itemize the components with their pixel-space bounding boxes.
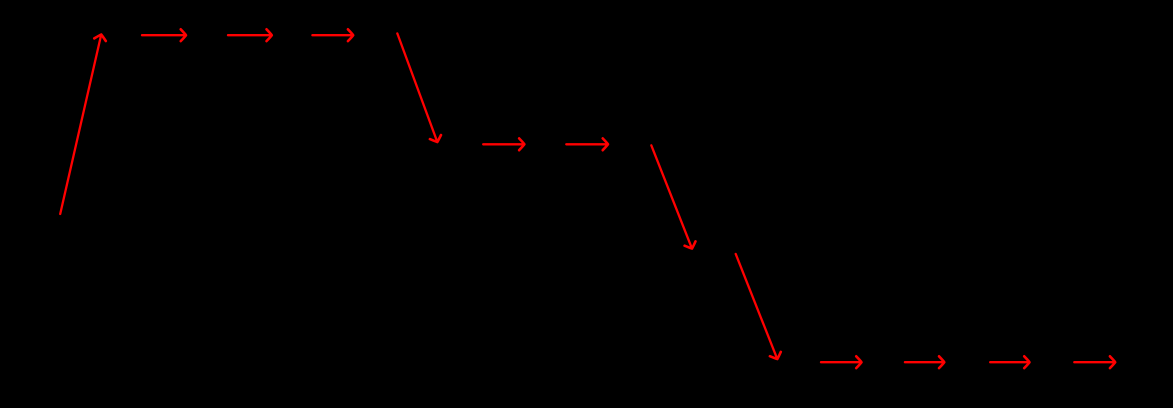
arrow bottom row 1 — [821, 356, 862, 368]
arrow middle row 1 — [483, 138, 524, 150]
arrow up-left diagonal — [60, 35, 106, 215]
arrow top row 3 — [312, 29, 353, 41]
arrow bottom row 4 — [1074, 356, 1115, 368]
arrow down diagonal 3 — [736, 254, 781, 359]
arrow top row 1 — [142, 29, 186, 41]
arrow down diagonal 2 — [651, 145, 695, 248]
arrow down diagonal 1 — [397, 33, 441, 142]
arrow bottom row 2 — [905, 356, 944, 368]
arrow top row 2 — [228, 29, 272, 41]
arrow bottom row 3 — [990, 356, 1029, 368]
arrow middle row 2 — [566, 138, 608, 150]
